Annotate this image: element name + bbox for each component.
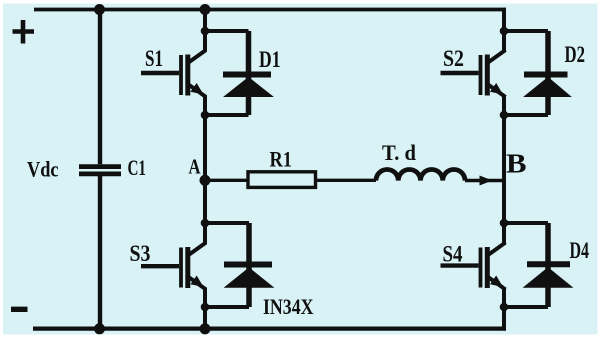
svg-text:S2: S2: [443, 46, 464, 72]
svg-text:T. d: T. d: [382, 140, 416, 165]
svg-text:D1: D1: [259, 47, 281, 73]
svg-text:B: B: [506, 149, 527, 179]
svg-text:C1: C1: [128, 155, 147, 180]
svg-text:A: A: [189, 155, 201, 179]
svg-text:IN34X: IN34X: [263, 294, 314, 319]
svg-text:Vdc: Vdc: [27, 157, 59, 182]
svg-text:D2: D2: [565, 42, 586, 68]
svg-text:S1: S1: [145, 46, 163, 72]
svg-text:S4: S4: [443, 242, 463, 268]
svg-text:D4: D4: [570, 238, 590, 264]
svg-text:R1: R1: [270, 147, 293, 172]
svg-text:S3: S3: [130, 241, 151, 267]
